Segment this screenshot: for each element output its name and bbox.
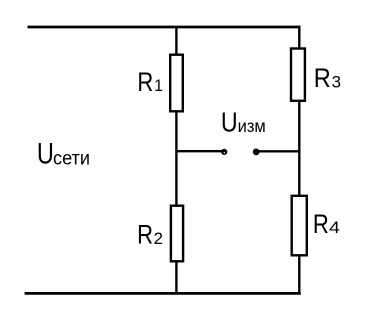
- wire right branch middle segment: [298, 100, 300, 196]
- svg-text:R: R: [137, 67, 153, 97]
- label R1: [137, 67, 163, 97]
- wire left branch bottom segment: [175, 261, 177, 293]
- resistor R1: [170, 55, 183, 112]
- svg-text:сети: сети: [53, 148, 90, 169]
- wire left branch top segment: [175, 27, 177, 55]
- svg-text:2: 2: [154, 229, 163, 248]
- wire right branch top segment: [298, 26, 300, 49]
- svg-text:1: 1: [154, 76, 163, 95]
- svg-text:изм: изм: [238, 116, 266, 136]
- svg-text:U: U: [221, 107, 238, 138]
- wire right branch bottom segment: [298, 255, 300, 293]
- label R4: [313, 209, 340, 239]
- svg-text:R: R: [314, 63, 331, 93]
- label U izm (measured voltage): [221, 107, 266, 138]
- wire bottom bus: [25, 292, 301, 295]
- svg-text:R: R: [137, 220, 153, 250]
- svg-text:U: U: [37, 138, 54, 171]
- node measurement terminal right: [253, 149, 260, 156]
- svg-text:3: 3: [332, 73, 341, 92]
- resistor R4: [292, 196, 307, 256]
- svg-text:4: 4: [329, 218, 340, 237]
- label U seti (mains voltage): [37, 138, 90, 171]
- wire measurement tap right: [256, 150, 299, 152]
- wire measurement tap left: [176, 150, 221, 152]
- label R2: [137, 220, 163, 250]
- node measurement terminal left: [221, 149, 227, 155]
- wire top bus: [28, 26, 301, 29]
- svg-text:R: R: [313, 209, 329, 239]
- label R3: [314, 63, 341, 93]
- resistor R3: [291, 49, 305, 101]
- resistor R2: [171, 206, 183, 262]
- wire left branch middle segment: [175, 111, 177, 206]
